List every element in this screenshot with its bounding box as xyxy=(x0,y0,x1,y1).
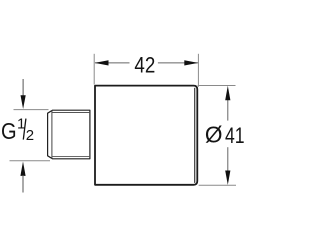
svg-text:41: 41 xyxy=(225,123,245,148)
cylinder face edge line xyxy=(194,88,196,183)
extension line bottom of dim 41 xyxy=(199,184,236,186)
thread root line top xyxy=(52,112,90,114)
label fraction slash xyxy=(23,119,26,140)
svg-text:Ø: Ø xyxy=(205,122,223,148)
dim line 42 right segment xyxy=(158,62,198,64)
extension line bottom of thread dim xyxy=(10,160,51,162)
extension line right of dim 42 xyxy=(197,54,199,87)
arrow left of dim 42 xyxy=(95,60,109,65)
extension line top of thread dim xyxy=(14,109,49,111)
svg-text:G: G xyxy=(1,118,17,144)
cylinder body outline xyxy=(95,86,197,185)
dim line 42 left segment xyxy=(95,62,130,64)
stem of thread dim top arrow xyxy=(22,79,24,96)
stem of thread dim bottom arrow xyxy=(22,175,24,193)
arrow up of dim 41 xyxy=(225,86,230,100)
thread chamfer line xyxy=(51,110,53,159)
arrow right of dim 42 xyxy=(184,60,198,65)
svg-text:42: 42 xyxy=(134,52,155,77)
thread root line bottom xyxy=(52,155,90,157)
arrow down of thread dim xyxy=(21,95,26,109)
arrow down of dim 41 xyxy=(225,171,230,185)
dim line 41 upper segment xyxy=(227,100,229,121)
dim line 41 lower segment xyxy=(227,147,229,171)
extension line top of dim 41 xyxy=(198,85,236,87)
svg-text:2: 2 xyxy=(26,127,34,144)
extension line left of dim 42 xyxy=(93,54,95,85)
arrow up of thread dim xyxy=(20,162,25,176)
thread nipple G1/2 outline xyxy=(48,110,90,159)
